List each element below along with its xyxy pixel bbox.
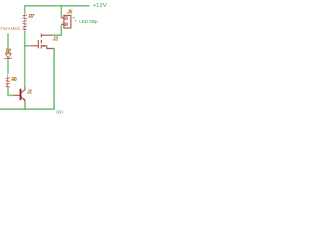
svg-text:J2: J2 <box>53 37 59 43</box>
svg-text:R6: R6 <box>11 77 17 83</box>
svg-text:GND: GND <box>56 109 64 114</box>
svg-text:From Micro: From Micro <box>0 26 20 31</box>
svg-text:J5: J5 <box>67 9 73 15</box>
svg-text:D2: D2 <box>6 49 12 55</box>
svg-text:+12V: +12V <box>93 3 107 9</box>
svg-text:LED Strip: LED Strip <box>79 19 98 25</box>
svg-text:J1: J1 <box>27 90 33 96</box>
